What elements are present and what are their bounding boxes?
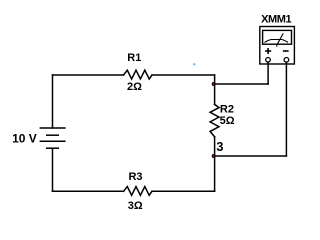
wire bottom rail right segment [152, 190, 215, 192]
wire node 3 horizontal to minus lead [215, 155, 287, 157]
svg-text:5Ω: 5Ω [220, 115, 235, 127]
wire multimeter minus lead vertical [285, 62, 287, 156]
svg-text:10 V: 10 V [12, 132, 37, 146]
wire right vertical upper (to R2 top) [214, 75, 216, 104]
resistor R1 zigzag [124, 70, 152, 79]
wire battery bottom stub [52, 148, 54, 191]
multimeter terminal minus [284, 58, 289, 63]
wire top rail left segment [53, 74, 124, 76]
battery V1 plates [40, 128, 66, 148]
stray blue dot artifact [193, 63, 195, 65]
multimeter scale arc [265, 40, 289, 43]
resistor R3 zigzag [124, 187, 152, 196]
multimeter terminal plus [266, 58, 271, 63]
svg-text:3: 3 [216, 140, 223, 154]
multimeter minus mark [283, 50, 289, 52]
svg-text:XMM1: XMM1 [261, 14, 291, 26]
wire left vertical top (battery + to top rail) [52, 75, 54, 128]
svg-text:R2: R2 [220, 103, 234, 115]
resistor R2 zigzag [210, 104, 219, 136]
svg-text:2Ω: 2Ω [127, 81, 142, 93]
junction dot node at R1/R2/XMM1 [212, 82, 216, 86]
svg-text:R3: R3 [128, 171, 142, 183]
svg-text:R1: R1 [127, 52, 141, 64]
svg-text:3Ω: 3Ω [128, 200, 143, 212]
multimeter needle [277, 33, 283, 44]
wire multimeter plus lead vertical [267, 62, 269, 84]
wire top rail right segment [152, 74, 215, 76]
multimeter XMM1 body [260, 27, 295, 65]
wire right vertical lower (R2 bottom through node 3 to bottom rail) [214, 137, 216, 192]
multimeter bottom tick [276, 44, 278, 47]
multimeter plus mark [265, 48, 271, 54]
junction dot node 3 [212, 154, 216, 158]
wire bottom rail left segment [53, 190, 124, 192]
wire multimeter plus lead horizontal [215, 83, 269, 85]
